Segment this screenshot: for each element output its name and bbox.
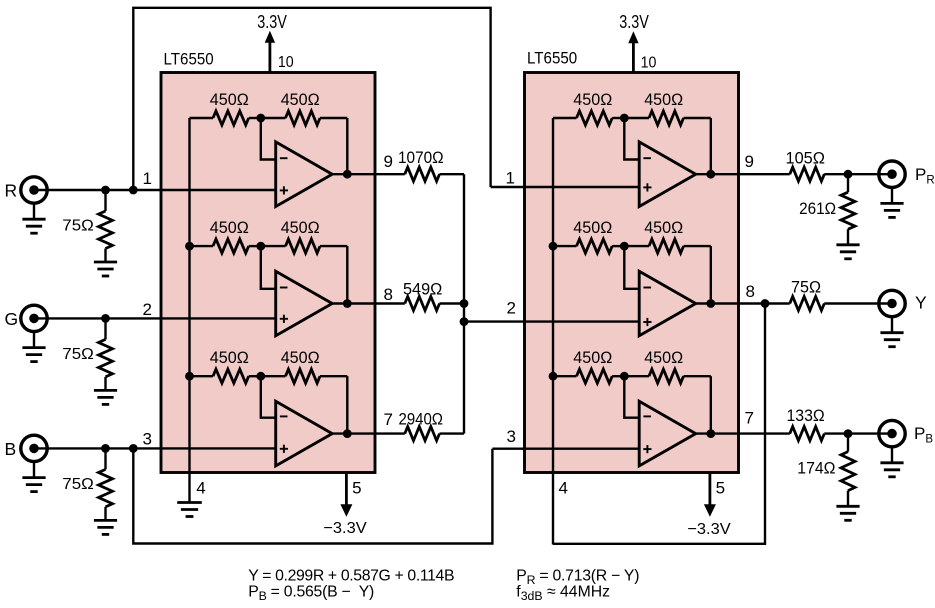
connector J-B input jack: [21, 435, 47, 461]
label G: [5, 309, 19, 329]
junction Y output feedback tap: [761, 299, 770, 308]
junction on G line at 75-ohm tap: [101, 314, 110, 323]
svg-text:450Ω: 450Ω: [210, 218, 249, 237]
ground of R jack: [22, 203, 45, 233]
resistor 75-ohm B termination: [99, 448, 113, 520]
pin 5 label U2: [716, 479, 725, 498]
svg-text:10: 10: [278, 54, 294, 71]
svg-text:450Ω: 450Ω: [281, 348, 320, 367]
svg-text:8: 8: [746, 282, 755, 301]
wire G input line to U1 pin 2: [34, 317, 276, 319]
ground of Y jack: [880, 317, 903, 347]
wire U2 pin 2 input line: [464, 320, 639, 322]
svg-text:7: 7: [384, 410, 393, 429]
pin 8 label U2: [746, 282, 755, 301]
junction on R line (feed to U2): [129, 186, 138, 195]
label 3.3V (U1): [257, 12, 287, 32]
svg-text:450Ω: 450Ω: [281, 90, 320, 109]
junction U2 feedback rail ch2: [549, 242, 558, 251]
wire U2 ch2 inverting stub: [624, 246, 639, 289]
supply 3.3V arrow U1 pin 10: [265, 31, 275, 73]
wire U2 pin 8 output: [696, 302, 790, 304]
label 75&#937; (Y out): [791, 277, 821, 296]
junction U1 ch1 summing node: [256, 114, 265, 123]
label 450&#937; (U1 ch1 fb): [281, 90, 320, 109]
svg-text:5: 5: [716, 479, 725, 498]
wire R to U2 pin 1 (top route): [133, 8, 490, 190]
supply -3.3V arrow U1 pin 5: [340, 473, 352, 517]
svg-text:R: R: [5, 181, 18, 201]
wire U1 ch2 inverting stub: [261, 246, 276, 289]
svg-text:4: 4: [196, 479, 205, 498]
label 450&#937; (U2 ch3 fb): [644, 348, 683, 367]
op-amp U2 ch1: [639, 142, 696, 207]
svg-text:450Ω: 450Ω: [644, 218, 683, 237]
resistor 133-ohm: [790, 427, 892, 441]
wire U1 pin 8 output: [332, 302, 405, 304]
label 450&#937; (U2 ch2 in): [573, 218, 612, 237]
connector J-PR output jack: [879, 161, 905, 187]
junction U1 ch2 summing node: [256, 242, 265, 251]
junction U2 feedback rail ch3: [549, 372, 558, 381]
label 450&#937; (U2 ch2 fb): [644, 218, 683, 237]
ground U1 pin 4: [177, 503, 202, 517]
pin 7 label U2: [745, 409, 754, 428]
resistor 450-ohm U2 ch2 feedback: [624, 239, 711, 253]
label PB: [914, 424, 933, 446]
op-amp U2 ch3: [639, 401, 696, 466]
svg-text:450Ω: 450Ω: [573, 348, 612, 367]
svg-text:PB = 0.565(B − Y): PB = 0.565(B − Y): [248, 583, 374, 603]
svg-text:2940Ω: 2940Ω: [399, 410, 444, 429]
svg-text:−3.3V: −3.3V: [323, 520, 367, 537]
connector J-Y output jack: [879, 290, 905, 316]
junction on R line at 75-ohm tap: [101, 186, 110, 195]
label -3.3V (U1): [323, 520, 367, 537]
wire U2 ch1 feedback to output: [710, 118, 712, 174]
wire U1 pin 7 output: [332, 432, 405, 434]
equation PB: [248, 583, 374, 603]
junction U2 ch1 summing node: [620, 114, 629, 123]
pin 7 label U1: [384, 410, 393, 429]
resistor 450-ohm U2 ch3 input: [553, 369, 624, 383]
op-amp U1 ch1: [276, 142, 333, 207]
svg-text:3.3V: 3.3V: [619, 12, 649, 32]
wire U2 pin 1 input line: [491, 186, 640, 188]
svg-text:8: 8: [384, 285, 393, 304]
svg-text:4: 4: [559, 479, 568, 498]
svg-text:2: 2: [507, 299, 516, 318]
wire U1 ch1 inverting stub: [261, 118, 276, 160]
svg-text:5: 5: [352, 479, 361, 498]
wire U2 ch1 inverting stub: [624, 118, 639, 160]
wire U2 pin 7 output: [696, 432, 790, 434]
pin 3 label U2: [507, 427, 516, 446]
label 174&#937;: [797, 459, 835, 478]
ground of B jack: [22, 461, 45, 491]
svg-text:−3.3V: −3.3V: [687, 521, 731, 538]
pin 2 label U1: [143, 300, 152, 319]
resistor 450-ohm U2 ch3 feedback: [624, 369, 711, 383]
pin 8 label U1: [384, 285, 393, 304]
junction U1 feedback rail ch3: [185, 372, 194, 381]
svg-text:7: 7: [745, 409, 754, 428]
label -3.3V (U2): [687, 521, 731, 538]
label 75&#937; (B): [62, 476, 94, 493]
svg-text:B: B: [5, 439, 17, 459]
resistor 450-ohm U2 ch1 input: [553, 111, 624, 125]
svg-text:9: 9: [384, 152, 393, 171]
pin 5 label U1: [352, 479, 361, 498]
resistor 450-ohm U1 ch1 feedback: [261, 111, 348, 125]
wire Y-sum bus: [463, 174, 465, 433]
svg-text:75Ω: 75Ω: [62, 476, 94, 493]
junction on B line at 75-ohm tap: [101, 444, 110, 453]
ground of PB jack: [880, 447, 903, 477]
label 3.3V (U2): [619, 12, 649, 32]
label 2940&#937;: [399, 410, 444, 429]
equation PR: [516, 567, 639, 587]
wire U1 ch3 inverting stub: [261, 376, 276, 418]
connector J-R input jack: [21, 177, 47, 203]
junction U1 ch3 output node: [343, 429, 352, 438]
svg-text:450Ω: 450Ω: [573, 218, 612, 237]
label 450&#937; (U2 ch1 in): [573, 90, 612, 109]
junction U1 ch2 output node: [343, 299, 352, 308]
resistor 75-ohm G termination: [99, 318, 113, 390]
junction U2 ch2 summing node: [620, 242, 629, 251]
supply -3.3V arrow U2 pin 5: [704, 473, 716, 517]
label 450&#937; (U1 ch1 in): [210, 90, 249, 109]
svg-text:261Ω: 261Ω: [799, 199, 836, 218]
resistor 105-ohm: [790, 167, 892, 181]
label 105&#937;: [786, 148, 826, 167]
resistor 1070-ohm: [405, 167, 464, 181]
label 450&#937; (U2 ch3 in): [573, 348, 612, 367]
label B: [5, 439, 17, 459]
wire U1 ch2 feedback to output: [346, 246, 348, 303]
pin 4 label U2: [559, 479, 568, 498]
wire B to U2 pin 3 (bottom route): [133, 448, 492, 543]
ground of G jack: [22, 331, 45, 361]
resistor 75-ohm output: [790, 297, 892, 311]
svg-text:9: 9: [745, 152, 754, 171]
wire U1 pin 9 output: [332, 173, 405, 175]
connector J-PB output jack: [879, 420, 905, 446]
op-amp U1 ch2: [276, 271, 333, 336]
svg-text:450Ω: 450Ω: [644, 90, 683, 109]
wire U1 ch3 feedback to output: [346, 376, 348, 433]
resistor 450-ohm U2 ch1 feedback: [624, 111, 711, 125]
label 75&#937; (G): [62, 346, 94, 363]
label 75&#937; (R): [62, 218, 94, 235]
svg-text:3.3V: 3.3V: [257, 12, 287, 32]
svg-text:133Ω: 133Ω: [787, 406, 825, 425]
ground of 75-ohm G: [94, 390, 117, 404]
junction U2 ch3 output node: [706, 429, 715, 438]
junction U1 ch3 summing node: [256, 372, 265, 381]
label 450&#937; (U1 ch2 fb): [281, 218, 320, 237]
supply 3.3V arrow U2 pin 10: [628, 31, 638, 72]
wire U2 ch2 feedback to output: [710, 246, 712, 303]
label PR: [915, 165, 935, 187]
op-amp U1 ch3: [276, 401, 333, 466]
resistor 2940-ohm: [405, 427, 464, 441]
svg-text:450Ω: 450Ω: [573, 90, 612, 109]
equation Y sum: [248, 567, 454, 584]
junction U2 ch2 output node: [706, 299, 715, 308]
label 450&#937; (U2 ch1 fb): [644, 90, 683, 109]
wire U2 pin 9 output: [696, 173, 790, 175]
svg-text:LT6550: LT6550: [164, 50, 214, 69]
resistor 450-ohm U1 ch3 input: [190, 369, 261, 383]
label R: [5, 181, 18, 201]
wire U2 pin 3 input line: [492, 448, 639, 450]
wire B input line to U1 pin 3: [34, 447, 276, 449]
svg-text:3: 3: [507, 427, 516, 446]
svg-text:1070Ω: 1070Ω: [398, 148, 444, 167]
wire U1 feedback rail / pin 4 vertical: [188, 118, 190, 502]
pin 9 label U2: [745, 152, 754, 171]
svg-text:105Ω: 105Ω: [786, 148, 826, 167]
label 261&#937;: [799, 199, 836, 218]
IC U1 LT6550 body: [161, 73, 375, 473]
svg-text:450Ω: 450Ω: [644, 348, 683, 367]
junction U1 feedback rail ch2: [185, 242, 194, 251]
ground of 75-ohm B: [94, 520, 117, 534]
label 450&#937; (U1 ch3 in): [210, 348, 249, 367]
pin 3 label U1: [143, 430, 152, 449]
pin 9 label U1: [384, 152, 393, 171]
connector J-G input jack: [21, 305, 47, 331]
svg-text:LT6550: LT6550: [527, 49, 577, 68]
svg-text:10: 10: [641, 54, 657, 71]
junction U2 ch3 summing node: [620, 372, 629, 381]
wire U2 ch3 feedback to output: [710, 376, 712, 433]
wire U2 feedback rail / pin 4 vertical: [552, 118, 554, 545]
svg-text:75Ω: 75Ω: [62, 346, 94, 363]
svg-text:2: 2: [143, 300, 152, 319]
resistor 174-ohm shunt: [841, 434, 855, 507]
pin 2 label U2: [507, 299, 516, 318]
label U2 LT6550: [527, 49, 577, 68]
junction Y-sum bus at U2 pin 2 tap: [460, 317, 469, 326]
resistor 75-ohm R termination: [99, 190, 113, 262]
label U1 LT6550: [164, 50, 214, 69]
wire U2 ch3 inverting stub: [624, 376, 639, 418]
junction on B line (feed to U2): [129, 444, 138, 453]
svg-text:450Ω: 450Ω: [210, 348, 249, 367]
wire R input line to U1 pin 1: [34, 189, 276, 191]
pin 1 label U2: [506, 169, 515, 188]
resistor 450-ohm U1 ch2 feedback: [261, 239, 348, 253]
junction Y-sum bus at 549-ohm: [460, 299, 469, 308]
label 133&#937;: [787, 406, 825, 425]
svg-text:1: 1: [506, 169, 515, 188]
ground of 174-ohm: [836, 506, 859, 520]
svg-text:3: 3: [143, 430, 152, 449]
wire U1 ch1 feedback to output: [346, 118, 348, 174]
resistor 549-ohm: [405, 297, 464, 311]
svg-text:549Ω: 549Ω: [403, 280, 442, 299]
label 549&#937;: [403, 280, 442, 299]
resistor 450-ohm U1 ch2 input: [190, 239, 261, 253]
label 450&#937; (U1 ch2 in): [210, 218, 249, 237]
junction PR output node: [844, 170, 853, 179]
pin 1 label U1: [143, 169, 152, 188]
label 1070&#937;: [398, 148, 444, 167]
ground of PR jack: [880, 187, 903, 217]
svg-text:Y = 0.299R + 0.587G + 0.114B: Y = 0.299R + 0.587G + 0.114B: [248, 567, 454, 584]
resistor 450-ohm U1 ch1 input: [190, 111, 261, 125]
label Y: [915, 292, 927, 312]
resistor 261-ohm shunt: [841, 174, 855, 245]
svg-text:75Ω: 75Ω: [791, 277, 821, 296]
junction U2 ch1 output node: [706, 170, 715, 179]
svg-text:450Ω: 450Ω: [281, 218, 320, 237]
pin 4 label U1: [196, 479, 205, 498]
label 450&#937; (U1 ch3 fb): [281, 348, 320, 367]
svg-text:174Ω: 174Ω: [797, 459, 835, 478]
svg-text:Y: Y: [915, 292, 927, 312]
pin 10 label U1: [278, 54, 294, 71]
svg-text:450Ω: 450Ω: [210, 90, 249, 109]
junction PB output node: [844, 429, 853, 438]
resistor 450-ohm U1 ch3 feedback: [261, 369, 348, 383]
svg-text:G: G: [5, 309, 19, 329]
resistor 450-ohm U2 ch2 input: [553, 239, 624, 253]
svg-text:1: 1: [143, 169, 152, 188]
equation f3dB: [516, 583, 610, 603]
svg-text:75Ω: 75Ω: [62, 218, 94, 235]
ground of 261-ohm: [836, 245, 859, 259]
pin 10 label U2: [641, 54, 657, 71]
op-amp U2 ch2: [639, 271, 696, 336]
IC U2 LT6550 body: [525, 73, 739, 473]
ground of 75-ohm R: [94, 262, 117, 276]
wire U2 pin 4 Y-feedback (bottom route): [553, 304, 765, 544]
junction U1 ch1 output node: [343, 170, 352, 179]
